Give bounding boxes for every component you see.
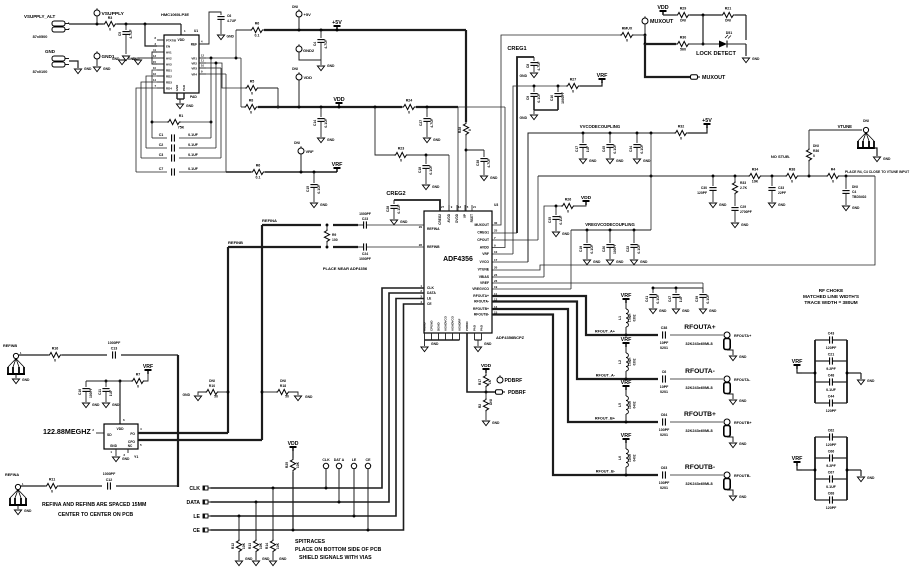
svg-text:CLK: CLK	[427, 286, 434, 290]
svg-text:RFOUTB+: RFOUTB+	[473, 307, 489, 311]
via CE	[365, 458, 371, 530]
resistor R33	[732, 176, 747, 195]
ground REFINB sma	[12, 374, 30, 384]
ground J2	[74, 67, 92, 74]
svg-text:DATA: DATA	[186, 500, 200, 506]
svg-text:GND: GND	[279, 557, 287, 561]
svg-text:VSUPPLY: VSUPPLY	[102, 11, 125, 17]
svg-text:Y1: Y1	[134, 455, 138, 459]
svg-text:2.7K: 2.7K	[740, 186, 748, 190]
wire R27 to VRF flag	[580, 82, 602, 86]
label LE input	[193, 514, 210, 520]
U1 pad ground	[177, 93, 197, 103]
svg-text:VDD: VDD	[657, 5, 668, 11]
label refin note	[42, 502, 147, 518]
svg-text:GND: GND	[128, 57, 136, 61]
resistor R8	[241, 99, 258, 115]
label place near adf	[323, 266, 368, 271]
svg-text:CLK: CLK	[322, 458, 330, 462]
svg-text:0.1UF: 0.1UF	[324, 118, 328, 127]
svg-text:RSET: RSET	[470, 214, 474, 222]
label VVCODECOUPLING	[580, 124, 621, 129]
label CE input	[193, 528, 211, 534]
svg-text:VDD: VDD	[177, 38, 185, 42]
label CREG1	[507, 46, 526, 52]
wire RD3 loop	[141, 82, 157, 158]
svg-text:C4: C4	[852, 190, 856, 194]
svg-text:0.1: 0.1	[256, 176, 261, 180]
svg-text:R34: R34	[752, 168, 759, 172]
power flag VDD pullup	[288, 441, 299, 451]
svg-text:4.7UF: 4.7UF	[430, 118, 434, 127]
svg-text:REFINB: REFINB	[228, 240, 243, 245]
label RFOUTB+	[684, 411, 716, 418]
svg-text:RFOUTB-: RFOUTB-	[685, 464, 715, 471]
svg-text:REFINB: REFINB	[427, 245, 440, 249]
resistor R34	[748, 168, 762, 184]
wire REFINB vertical	[227, 247, 230, 433]
svg-text:100PF: 100PF	[89, 388, 93, 398]
label place R4 C4	[845, 170, 910, 174]
svg-text:PLACE ON BOTTOM SIDE OF PCB: PLACE ON BOTTOM SIDE OF PCB	[295, 547, 381, 553]
svg-text:R11: R11	[49, 478, 55, 482]
ground C47	[672, 309, 690, 314]
svg-text:4.7UF: 4.7UF	[487, 158, 491, 167]
ground R2	[482, 421, 500, 426]
svg-text:0: 0	[572, 90, 574, 94]
svg-text:L5: L5	[618, 403, 622, 407]
svg-text:C39: C39	[695, 296, 699, 302]
svg-text:0.1UF: 0.1UF	[188, 153, 199, 157]
wire REFINB chain	[19, 354, 178, 356]
svg-text:1K: 1K	[488, 379, 492, 384]
svg-text:VRF: VRF	[792, 456, 803, 462]
svg-text:REFINA AND REFINB ARE SPACED 1: REFINA AND REFINB ARE SPACED 15MM	[42, 502, 147, 508]
label VREGVCODECOUPLING	[585, 222, 635, 227]
ground Y1	[112, 457, 130, 462]
svg-text:C30: C30	[701, 186, 707, 190]
svg-text:D51: D51	[726, 31, 733, 35]
ground ADF pad	[474, 342, 492, 352]
svg-text:25: 25	[494, 229, 498, 233]
capacitor C7	[136, 167, 226, 176]
capacitor C63	[659, 466, 670, 490]
U1 right pin stubs	[199, 40, 206, 75]
svg-text:120PF: 120PF	[826, 409, 837, 413]
svg-text:10K: 10K	[296, 461, 300, 468]
svg-text:R28: R28	[458, 127, 462, 133]
ground sma B+	[727, 437, 747, 448]
svg-text:C44: C44	[828, 395, 835, 399]
svg-text:R13: R13	[248, 543, 252, 549]
svg-text:R4: R4	[831, 168, 836, 172]
wire DVDD feed	[457, 107, 459, 211]
svg-text:ADF4356BCPZ: ADF4356BCPZ	[496, 335, 525, 340]
power flag VDD pdbrf	[481, 363, 492, 373]
svg-text:DGND: DGND	[437, 322, 441, 331]
svg-text:R24: R24	[406, 99, 413, 103]
capacitor C38	[660, 326, 669, 350]
resistor R10 DNI	[198, 379, 228, 399]
svg-text:CPOUT: CPOUT	[477, 238, 490, 242]
wire VRF pin net	[492, 85, 566, 254]
CB symbol muxout	[691, 75, 727, 81]
svg-text:GND: GND	[520, 74, 528, 78]
svg-text:0.1UF: 0.1UF	[397, 204, 401, 213]
svg-text:32K243x60ML8: 32K243x60ML8	[685, 429, 712, 433]
svg-text:VREGVCODECOUPLING: VREGVCODECOUPLING	[585, 222, 635, 227]
svg-text:C22: C22	[626, 246, 630, 252]
ground C28	[390, 220, 408, 225]
svg-text:MUXOUT: MUXOUT	[474, 223, 490, 227]
svg-text:GND: GND	[867, 476, 875, 480]
wire DATA bus	[211, 293, 425, 503]
svg-text:100PF: 100PF	[659, 428, 670, 432]
capacitor C12	[103, 472, 116, 490]
svg-text:RMUX: RMUX	[622, 27, 633, 31]
svg-text:120PF: 120PF	[826, 346, 837, 350]
inductor L6	[618, 443, 637, 475]
svg-text:AGND: AGND	[423, 322, 427, 331]
svg-text:RD2: RD2	[166, 75, 172, 79]
capacitor 610 vvco	[602, 133, 617, 158]
svg-text:R25: R25	[285, 462, 289, 468]
resistor R13 pulldown	[248, 502, 263, 560]
resistor R18 DNI	[262, 379, 298, 399]
svg-text:GND: GND	[659, 309, 667, 313]
ground C39	[699, 309, 717, 314]
svg-text:C23: C23	[362, 217, 368, 221]
connector J1 VSUPPLY_ALT 87x0500	[24, 14, 70, 39]
ground R13	[252, 557, 270, 566]
svg-text:GND: GND	[327, 64, 335, 68]
svg-text:PLACE R4, C4 CLOSE TO VTUNE I: PLACE R4, C4 CLOSE TO VTUNE INPUT	[845, 170, 910, 174]
label REFINA net	[262, 218, 277, 223]
svg-text:GND: GND	[183, 393, 191, 397]
capacitor C33	[768, 176, 786, 202]
svg-text:GND: GND	[484, 342, 492, 346]
label LOCK DETECT	[696, 51, 736, 57]
via DAT A	[334, 458, 345, 502]
svg-text:C66: C66	[828, 450, 835, 454]
svg-text:4.7UF: 4.7UF	[324, 39, 328, 48]
svg-text:14: 14	[153, 78, 156, 82]
svg-text:21: 21	[473, 205, 476, 209]
svg-text:RFOUTB+: RFOUTB+	[734, 421, 752, 425]
svg-text:C17: C17	[575, 146, 579, 152]
ground bank2	[857, 476, 875, 482]
svg-text:C21: C21	[828, 353, 835, 357]
svg-text:9.2PF: 9.2PF	[826, 464, 836, 468]
wire ADF pad gnd	[475, 333, 482, 346]
svg-text:0201: 0201	[660, 486, 668, 490]
svg-text:0: 0	[137, 385, 139, 389]
ground C9 C10	[520, 115, 538, 120]
svg-text:VP: VP	[463, 214, 467, 218]
svg-text:7.5NH: 7.5NH	[628, 313, 632, 323]
svg-text:0302: 0302	[633, 358, 637, 365]
svg-text:GND: GND	[186, 104, 194, 108]
wire tline B-	[670, 475, 723, 486]
wire RFOUT_B- route	[492, 315, 658, 477]
svg-text:GND: GND	[22, 378, 30, 382]
svg-text:VTUNE: VTUNE	[838, 124, 853, 129]
ground C11	[102, 403, 120, 408]
svg-text:GND: GND	[327, 138, 335, 142]
svg-text:REF: REF	[191, 43, 197, 47]
wire +5V rail	[264, 29, 466, 32]
svg-text:VRF: VRF	[482, 252, 489, 256]
testpoint MUXOUT	[642, 16, 674, 36]
power flag VRF bank1	[792, 359, 803, 373]
svg-text:FO: FO	[130, 432, 135, 436]
testpoint +5V DNI	[292, 5, 311, 30]
svg-text:PDBRF: PDBRF	[508, 390, 526, 396]
svg-text:1UF: 1UF	[109, 390, 113, 396]
svg-text:GND: GND	[431, 342, 439, 346]
svg-text:CE: CE	[193, 528, 201, 534]
svg-text:C48: C48	[828, 374, 835, 378]
resistor R26	[561, 198, 575, 214]
svg-text:DNI: DNI	[292, 67, 298, 71]
svg-text:0: 0	[567, 210, 569, 214]
svg-text:C9: C9	[526, 96, 530, 100]
svg-text:R30: R30	[680, 36, 687, 40]
capacitor C22	[626, 230, 641, 259]
svg-text:VRF: VRF	[621, 380, 632, 386]
resistor R4	[826, 168, 840, 184]
svg-text:GND: GND	[867, 379, 875, 383]
via CLK	[322, 458, 330, 488]
power flag VDD vbias	[581, 195, 592, 205]
svg-text:L6: L6	[618, 456, 622, 460]
svg-text:VR3: VR3	[191, 67, 197, 71]
svg-text:C5: C5	[118, 32, 122, 36]
svg-text:C6: C6	[662, 370, 667, 374]
svg-text:RFOUT_A+: RFOUT_A+	[595, 330, 616, 334]
svg-text:GND: GND	[110, 444, 118, 448]
svg-text:GND: GND	[719, 203, 727, 207]
ground U1 pad	[176, 104, 194, 109]
resistor R29 DNI	[676, 7, 690, 23]
svg-text:1000PF: 1000PF	[103, 472, 116, 476]
svg-text:10NH: 10NH	[628, 400, 632, 409]
ground R10	[183, 393, 202, 401]
capacitor C39	[695, 288, 710, 308]
SMA REFINA	[5, 473, 27, 505]
ground C5	[122, 56, 140, 61]
ground C29	[731, 223, 749, 228]
svg-text:87x0100: 87x0100	[33, 70, 48, 74]
svg-text:0.1UF: 0.1UF	[640, 144, 644, 153]
svg-text:100: 100	[332, 238, 338, 242]
resistor R23	[394, 147, 408, 163]
svg-text:12: 12	[201, 54, 204, 58]
wire cap tie	[534, 110, 558, 114]
wire VREGVCO net	[492, 230, 571, 289]
ground C30	[709, 203, 727, 208]
label REFINB net	[228, 240, 243, 245]
svg-text:4.7UF: 4.7UF	[129, 29, 133, 38]
svg-text:GND: GND	[643, 159, 651, 163]
resistor R27	[566, 78, 580, 94]
ground vvco 637	[633, 159, 651, 164]
SMA REFINB	[3, 344, 25, 374]
resistor R32	[674, 125, 688, 141]
svg-text:10: 10	[153, 66, 156, 70]
svg-text:RFOUTB+: RFOUTB+	[684, 411, 716, 418]
svg-text:EN: EN	[166, 45, 170, 49]
svg-text:RFOUTA-: RFOUTA-	[474, 300, 489, 304]
svg-text:10K: 10K	[259, 542, 263, 549]
svg-text:17: 17	[494, 258, 498, 262]
svg-text:REFINB: REFINB	[3, 344, 17, 348]
power flag VRF B-	[621, 433, 632, 443]
capacitor C29	[731, 195, 751, 222]
wire LE bus	[211, 299, 425, 518]
svg-text:GND: GND	[433, 138, 441, 142]
svg-text:DNI: DNI	[292, 5, 298, 9]
svg-text:GND: GND	[112, 403, 120, 407]
svg-text:C10: C10	[550, 95, 554, 101]
capacitor C6	[217, 14, 236, 34]
capacitor C9	[526, 86, 541, 110]
svg-text:+5V: +5V	[702, 118, 712, 124]
svg-text:9.2PF: 9.2PF	[826, 367, 836, 371]
svg-text:GND: GND	[852, 206, 860, 210]
power flag VRF A-	[621, 337, 632, 347]
svg-text:1UF: 1UF	[586, 146, 590, 152]
svg-text:GND: GND	[741, 223, 749, 227]
svg-text:22PF: 22PF	[778, 191, 786, 195]
IC U1 HMC1060LP3E box	[161, 12, 199, 93]
resistor R16	[48, 347, 62, 363]
svg-text:0: 0	[109, 28, 111, 32]
svg-text:DNI: DNI	[489, 399, 493, 405]
svg-text:VSUPPLY_ALT: VSUPPLY_ALT	[24, 14, 56, 19]
svg-text:0.1UF: 0.1UF	[590, 244, 594, 253]
capacitor C23	[358, 212, 424, 229]
svg-text:C34: C34	[629, 146, 633, 152]
svg-text:VTUNE: VTUNE	[478, 268, 490, 272]
resistor R21 DNI	[721, 7, 735, 23]
svg-text:GND: GND	[752, 57, 760, 61]
svg-text:GND: GND	[400, 220, 408, 224]
svg-text:0302: 0302	[633, 314, 637, 321]
svg-text:19: 19	[494, 285, 498, 289]
svg-text:CREG1: CREG1	[507, 46, 526, 52]
svg-text:CE: CE	[427, 302, 432, 306]
svg-text:50: 50	[285, 395, 289, 399]
svg-text:AGNDVCO: AGNDVCO	[451, 315, 455, 331]
svg-text:0: 0	[791, 180, 793, 184]
svg-text:R36: R36	[813, 149, 819, 153]
svg-text:RFOUTA+: RFOUTA+	[473, 294, 489, 298]
svg-text:0: 0	[468, 129, 472, 131]
wire +5V down feed	[465, 30, 467, 122]
svg-text:C29: C29	[740, 205, 746, 209]
capacitor C47	[668, 288, 683, 308]
svg-text:U3: U3	[494, 203, 498, 207]
svg-text:GND: GND	[305, 395, 313, 399]
svg-text:0: 0	[408, 111, 410, 115]
wire tline A+	[670, 335, 723, 346]
svg-text:CPGND: CPGND	[430, 321, 434, 332]
svg-text:GND: GND	[245, 557, 253, 561]
capacitor C35	[548, 206, 563, 231]
wire RD1 loop	[151, 70, 157, 138]
SMA VTUNE	[857, 127, 875, 148]
svg-text:560: 560	[680, 48, 686, 52]
svg-text:C12: C12	[106, 478, 113, 482]
svg-text:13: 13	[458, 205, 461, 209]
svg-text:0.1UF: 0.1UF	[706, 294, 710, 303]
wire VRF rail	[226, 171, 337, 174]
ground C27	[423, 138, 441, 143]
wire CREG2 net	[386, 191, 440, 211]
svg-text:C41: C41	[645, 296, 649, 302]
svg-text:R27: R27	[570, 78, 577, 82]
wire VTUNE return	[492, 176, 875, 270]
svg-text:C19: C19	[579, 246, 583, 252]
svg-text:2700PF: 2700PF	[740, 210, 752, 214]
svg-text:RD3: RD3	[166, 81, 172, 85]
wire vrf caps rail	[652, 287, 703, 290]
svg-text:RFOUT_A-: RFOUT_A-	[596, 374, 616, 378]
capacitor C6	[660, 370, 669, 394]
CB symbol PDBRF	[496, 390, 526, 396]
svg-text:28: 28	[419, 243, 423, 247]
svg-text:C16: C16	[78, 389, 82, 395]
resistor R25 10K	[285, 449, 300, 530]
svg-text:7.5NH: 7.5NH	[628, 357, 632, 367]
power flag VRF bank2	[792, 456, 803, 470]
label RFOUTA-	[685, 368, 715, 375]
wire VR4 net	[206, 74, 226, 172]
power flag VRF top	[597, 73, 608, 83]
svg-text:30: 30	[494, 221, 498, 225]
testpoint GND2	[296, 44, 321, 60]
svg-text:10: 10	[494, 250, 498, 254]
svg-text:RFOUTA-: RFOUTA-	[685, 368, 715, 375]
capacitor C27	[419, 107, 434, 137]
svg-text:100PF: 100PF	[659, 481, 670, 485]
svg-text:PAD: PAD	[473, 325, 477, 331]
resistor R38	[785, 168, 799, 184]
svg-text:C28: C28	[386, 206, 390, 212]
svg-text:C13: C13	[111, 347, 118, 351]
wire CE bus	[211, 304, 425, 531]
wire REFINA chain	[21, 486, 178, 487]
ground C33	[768, 203, 786, 208]
wire R28 to VP	[465, 136, 468, 211]
svg-text:C7: C7	[159, 167, 164, 171]
ground C4 5V	[317, 60, 335, 71]
svg-text:TBD0402: TBD0402	[852, 195, 867, 199]
svg-text:0.1UF: 0.1UF	[637, 244, 641, 253]
ground sma B-	[727, 490, 747, 501]
svg-text:0: 0	[832, 180, 834, 184]
svg-text:RFOUTA-: RFOUTA-	[734, 378, 751, 382]
label RFOUT_B-	[596, 470, 616, 474]
svg-text:10PF: 10PF	[660, 341, 669, 345]
svg-text:HMC1060LP3E: HMC1060LP3E	[161, 12, 189, 17]
svg-text:CREG1: CREG1	[477, 231, 489, 235]
svg-text:R21: R21	[725, 7, 732, 11]
LED D51 lock detect	[719, 31, 746, 48]
svg-text:C47: C47	[668, 296, 672, 302]
svg-text:32K243x60ML8: 32K243x60ML8	[685, 342, 712, 346]
